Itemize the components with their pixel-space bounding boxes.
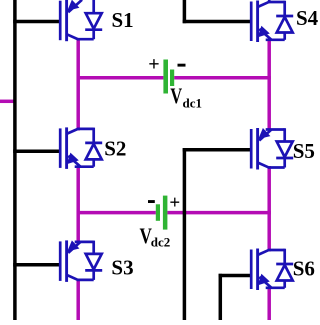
S4 gate bar bbox=[250, 2, 253, 42]
wire: Vdc2 negative lead (left of battery) bbox=[77, 211, 156, 215]
S5 gate bar bbox=[250, 129, 253, 169]
wire: left leg bus below S3 bbox=[76, 279, 80, 321]
S4 anti-parallel diode (cathode up) bbox=[283, 1, 286, 16]
S5 anti-parallel diode (cathode down) bbox=[283, 128, 286, 141]
S2 body bar bbox=[65, 127, 68, 168]
wire: S4 collector stub to top edge bbox=[268, 0, 271, 2]
wire: S6 gate lead bbox=[219, 274, 252, 278]
S3 body bar bbox=[65, 240, 68, 282]
S3 collector lead bbox=[77, 279, 94, 282]
battery Vdc1 long plate (+) bbox=[163, 60, 168, 94]
battery Vdc1 short plate (-) bbox=[170, 70, 174, 87]
svg-text:S4: S4 bbox=[296, 6, 319, 30]
S4 collector lead bbox=[258, 2, 270, 7]
svg-text:dc2: dc2 bbox=[151, 235, 171, 250]
S3 emitter lead with arrow bbox=[68, 242, 80, 253]
svg-text:S6: S6 bbox=[293, 256, 315, 280]
transistor S6 (IGBT with anti-parallel diode) bbox=[251, 249, 293, 291]
wire: left vertical rail bbox=[13, 0, 17, 320]
transistor S4 (IGBT with anti-parallel diode) bbox=[251, 1, 293, 43]
wire: left leg bus S1 emitter to S2 collector bbox=[76, 38, 80, 131]
wire: right vertical rail from S5 gate down bbox=[183, 148, 187, 320]
S1 collector lead bbox=[77, 38, 94, 41]
wire: S4 gate lead bbox=[183, 20, 252, 24]
polarity - of Vdc2 bbox=[148, 200, 155, 203]
S3 anti-parallel diode (cathode down) bbox=[92, 241, 95, 254]
S1 gate bar bbox=[59, 1, 62, 41]
svg-text:S1: S1 bbox=[112, 8, 134, 32]
S5 collector lead bbox=[268, 166, 285, 169]
svg-text:S3: S3 bbox=[111, 256, 133, 280]
S4 emitter lead with arrow bbox=[266, 38, 285, 41]
svg-text:V: V bbox=[170, 85, 182, 109]
S5 body bar bbox=[256, 128, 259, 170]
S6 collector lead bbox=[258, 250, 270, 255]
S2 anti-parallel diode (cathode up) bbox=[92, 128, 95, 143]
S3 gate bar bbox=[59, 241, 62, 281]
svg-text:+: + bbox=[169, 193, 180, 214]
S2 collector lead bbox=[67, 129, 79, 134]
S1 anti-parallel diode (cathode down) bbox=[92, 0, 95, 13]
wire: Vdc2 positive lead (right of battery) bbox=[167, 211, 271, 215]
wire: top right vertical stub bbox=[183, 0, 187, 23]
svg-text:+: + bbox=[148, 54, 159, 76]
polarity - of Vdc1 bbox=[178, 64, 186, 67]
battery Vdc2 long plate (+) bbox=[163, 196, 168, 230]
transistor S1 (IGBT with anti-parallel diode) bbox=[60, 0, 102, 41]
S5 emitter lead with arrow bbox=[259, 130, 271, 141]
wire: right leg bus S5 emitter to S6 collector bbox=[267, 166, 271, 252]
transistor S5 (IGBT with anti-parallel diode) bbox=[251, 128, 293, 170]
wire: phase output stub at left edge bbox=[0, 100, 15, 104]
transistor S3 (IGBT with anti-parallel diode) bbox=[60, 240, 102, 282]
wire: second right vertical from S6 gate down bbox=[219, 274, 223, 320]
S6 anti-parallel diode (cathode up) bbox=[283, 249, 286, 264]
wire: Vdc1 positive lead (left of battery) bbox=[77, 76, 164, 80]
S2 gate bar bbox=[59, 128, 62, 168]
S2 emitter lead with arrow bbox=[75, 165, 94, 168]
wire: S1 gate lead bbox=[13, 20, 60, 24]
S4 body bar bbox=[256, 1, 259, 43]
wire: right leg bus below S6 bbox=[267, 288, 271, 320]
wire: right leg bus S4 emitter to S5 collector bbox=[267, 39, 271, 131]
transistor S2 (IGBT with anti-parallel diode) bbox=[60, 127, 102, 168]
wire: S3 gate lead bbox=[13, 263, 60, 267]
S1 body bar bbox=[65, 0, 68, 41]
S1 emitter lead with arrow bbox=[68, 0, 82, 12]
S6 emitter lead with arrow bbox=[266, 286, 285, 289]
svg-text:dc1: dc1 bbox=[183, 95, 203, 110]
battery Vdc2 short plate (-) bbox=[156, 204, 160, 221]
wire: Vdc1 negative lead (right of battery) bbox=[174, 76, 271, 80]
wire: S5 gate lead bbox=[183, 148, 252, 152]
S6 body bar bbox=[256, 249, 259, 291]
wire: S2 gate lead bbox=[13, 150, 60, 154]
S6 gate bar bbox=[250, 250, 253, 290]
svg-text:S2: S2 bbox=[104, 137, 126, 161]
wire: left leg bus S2 emitter to S3 collector bbox=[76, 166, 80, 244]
svg-text:S5: S5 bbox=[293, 139, 315, 163]
